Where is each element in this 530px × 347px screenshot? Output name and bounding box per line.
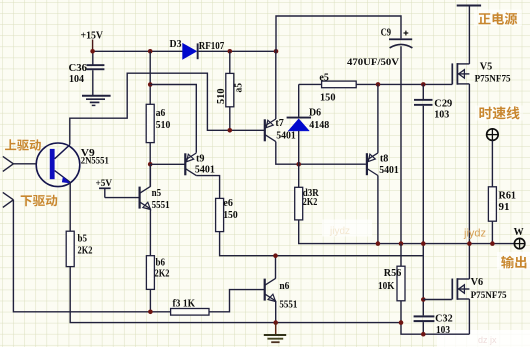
wire bottom rail xyxy=(70,267,401,323)
node junction at b6/f3 row xyxy=(148,310,153,315)
svg-text:V6: V6 xyxy=(471,277,484,288)
svg-text:5401: 5401 xyxy=(195,165,215,176)
svg-text:91: 91 xyxy=(499,202,510,213)
svg-text:2K2: 2K2 xyxy=(303,197,318,208)
node junction at V5/V6 output xyxy=(467,241,472,246)
svg-text:P75NF75: P75NF75 xyxy=(475,74,511,84)
wire V6 source to rail xyxy=(468,299,470,334)
svg-text:5401: 5401 xyxy=(276,131,296,142)
wire R56 top xyxy=(400,244,402,267)
capacitor C9 470UF/50V xyxy=(389,31,412,48)
node junction at n6 collector xyxy=(273,253,278,258)
svg-text:2K2: 2K2 xyxy=(155,268,170,279)
svg-text:103: 103 xyxy=(434,110,449,121)
svg-text:P75NF75: P75NF75 xyxy=(471,291,507,301)
wire +15V rail to D3 anode xyxy=(93,50,183,52)
transistor t9 (PNP 5401) xyxy=(185,153,196,176)
node junction at gate drive tap xyxy=(148,82,153,87)
wire f3 to n6 base xyxy=(209,290,265,312)
svg-text:C36: C36 xyxy=(69,63,88,74)
node junction at D6/d3R node xyxy=(296,162,301,167)
wire V5 drain to supply xyxy=(468,6,470,64)
svg-text:e5: e5 xyxy=(319,72,329,83)
wire terminal to R61 xyxy=(491,140,493,186)
wire t9 collector to e6 xyxy=(196,176,219,199)
svg-text:f3 1K: f3 1K xyxy=(173,298,196,309)
transistor V9 2N5551 xyxy=(36,143,80,187)
svg-text:e6: e6 xyxy=(223,198,233,209)
ground (C36) xyxy=(82,96,111,106)
wire e6 to mid rail xyxy=(220,232,424,256)
svg-text:2K2: 2K2 xyxy=(78,245,93,256)
wire C9 bottom to output node xyxy=(400,46,402,243)
label 输出 xyxy=(501,256,514,269)
node junction at +15V xyxy=(90,49,95,54)
transistor n5 (NPN 5551) xyxy=(140,186,151,209)
wire V9 emitter to b5 xyxy=(69,182,71,231)
wire R56 bottom xyxy=(401,301,469,334)
node W output terminal xyxy=(514,238,524,248)
node junction at R56 bottom rail xyxy=(399,320,404,325)
svg-text:W: W xyxy=(514,227,524,238)
svg-text:b6: b6 xyxy=(156,257,166,268)
node junction at R56 top xyxy=(399,241,404,246)
svg-text:dz jx: dz jx xyxy=(478,335,497,345)
power +5V xyxy=(96,179,113,198)
svg-text:t9: t9 xyxy=(196,153,205,164)
wire e5 to V5 gate xyxy=(356,83,452,85)
label 时速线 wash xyxy=(475,106,523,121)
node junction at t8 emitter node xyxy=(376,82,381,87)
svg-text:150: 150 xyxy=(223,210,238,221)
wire V9 collector to t7 base xyxy=(70,73,265,144)
resistor a5 510 xyxy=(226,73,234,106)
capacitor C29 103 xyxy=(414,99,433,106)
node junction at a6 tap xyxy=(148,49,153,54)
svg-text:C9: C9 xyxy=(381,27,392,38)
svg-text:2N5551: 2N5551 xyxy=(81,156,109,166)
svg-text:a6: a6 xyxy=(156,108,166,119)
node junction at a5 tap xyxy=(228,49,233,54)
label 上驱动 xyxy=(5,139,16,150)
svg-text:470UF/50V: 470UF/50V xyxy=(347,57,399,68)
svg-text:n6: n6 xyxy=(279,281,289,292)
node junction at a5/t7 base xyxy=(228,128,233,133)
svg-text:jiydz: jiydz xyxy=(329,226,350,237)
wire C29/C32 column xyxy=(422,106,424,316)
wire D3 cathode rail to node xyxy=(199,50,276,52)
svg-text:R56: R56 xyxy=(384,268,402,279)
svg-text:t8: t8 xyxy=(380,153,389,164)
wire a6 top xyxy=(149,51,151,104)
transistor t7 (PNP 5401) xyxy=(265,119,276,142)
resistor b6 2K2 xyxy=(146,256,154,290)
wire +15V tick xyxy=(92,40,94,52)
resistor a6 510 xyxy=(146,104,154,142)
diode D6 4148 xyxy=(287,117,311,131)
node junction at V6 gate node xyxy=(421,297,426,302)
svg-text:10K: 10K xyxy=(378,281,395,292)
wire C29 top xyxy=(422,84,424,99)
wire t9 collector stub xyxy=(195,175,197,177)
svg-text:t7: t7 xyxy=(275,118,284,129)
label 时速线 xyxy=(479,107,491,120)
node 下驱动 input arrow xyxy=(3,192,14,207)
wire output row xyxy=(299,220,515,244)
wire t8 emitter up xyxy=(377,84,379,152)
svg-text:C29: C29 xyxy=(434,99,452,110)
capacitor C32 103 xyxy=(414,315,435,334)
resistor b5 2K2 xyxy=(66,231,74,266)
svg-text:jiydz: jiydz xyxy=(463,228,486,240)
svg-text:104: 104 xyxy=(69,74,84,85)
diode D3 RF107 xyxy=(183,43,199,59)
wire t8 collector down xyxy=(377,176,379,244)
wire t7 emitter to rail xyxy=(275,51,277,119)
label 下驱动 xyxy=(21,195,32,206)
wire lower drive to f3 xyxy=(13,200,170,312)
svg-text:4148: 4148 xyxy=(309,120,329,131)
svg-text:D3: D3 xyxy=(170,39,182,50)
transistor n6 (NPN 5551) xyxy=(265,278,276,301)
svg-text:R61: R61 xyxy=(499,190,517,201)
wire n5 emitter to b6 xyxy=(149,209,151,256)
svg-text:n5: n5 xyxy=(152,188,162,199)
svg-text:5401: 5401 xyxy=(379,165,399,176)
node 时速线 terminal xyxy=(487,129,499,141)
svg-text:510: 510 xyxy=(216,89,227,105)
label 输出 wash xyxy=(497,252,530,270)
capacitor C36 xyxy=(87,51,105,95)
node junction at C32 bottom rail xyxy=(421,332,426,337)
node junction at output column node xyxy=(421,241,426,246)
wire b6 bottom xyxy=(149,289,151,311)
wire D6 cathode up xyxy=(298,84,300,116)
watermark bottom right xyxy=(437,330,530,347)
svg-text:V5: V5 xyxy=(480,61,493,72)
resistor f3 1K xyxy=(171,309,209,316)
wire top rail to C9 xyxy=(276,16,401,51)
node junction at t9 base node xyxy=(148,162,153,167)
wire V5 source to V6 drain xyxy=(468,84,470,279)
svg-text:510: 510 xyxy=(156,120,171,131)
svg-text:+5V: +5V xyxy=(96,179,113,189)
node junction at C29 node xyxy=(421,82,426,87)
node 上驱动 input arrow xyxy=(3,156,37,171)
svg-text:5551: 5551 xyxy=(279,299,297,310)
wire n5 base xyxy=(105,197,140,199)
svg-text:C32: C32 xyxy=(435,314,453,325)
svg-text:150: 150 xyxy=(320,92,336,103)
ground (n6 emitter) xyxy=(264,323,286,343)
wire a5 top xyxy=(229,51,231,73)
svg-text:RF107: RF107 xyxy=(199,41,225,52)
wire to t9 emitter xyxy=(150,85,196,153)
svg-text:D6: D6 xyxy=(309,108,321,119)
wire t7 collector to t8 base xyxy=(276,142,366,165)
label 正电源 xyxy=(478,13,490,24)
wire D6 top / e5 left xyxy=(299,83,322,85)
node junction at t7 emitter rail xyxy=(274,49,279,54)
node junction at n6 emitter rail xyxy=(273,320,278,325)
resistor R56 10K xyxy=(397,266,405,301)
resistor R61 91 xyxy=(488,187,496,221)
watermark patch xyxy=(322,220,372,237)
node junction at t8 collector/output xyxy=(376,241,381,246)
svg-text:b5: b5 xyxy=(78,233,88,244)
wire a6 to n5 collector xyxy=(149,143,151,187)
wire R61 bottom xyxy=(491,221,493,243)
transistor t8 (PNP 5401) xyxy=(367,153,378,176)
power 正电源 bar xyxy=(457,5,481,7)
resistor e5 150 xyxy=(322,81,357,88)
wire D6 anode to d3R xyxy=(298,131,300,187)
wire n6 collector xyxy=(275,256,277,279)
wire V6 gate xyxy=(423,299,452,301)
wire n6 emitter xyxy=(275,301,277,323)
svg-text:5551: 5551 xyxy=(152,200,170,211)
wire n5 collector xyxy=(149,164,151,186)
label 正电源 wash xyxy=(474,10,522,27)
node junction at R61/output xyxy=(490,241,495,246)
MOSFET V5 (P75NF75) xyxy=(452,63,469,85)
wire t9 base xyxy=(150,163,185,165)
resistor d3R 2K2 xyxy=(295,187,303,220)
svg-text:a5: a5 xyxy=(234,83,245,93)
MOSFET V6 (P75NF75) xyxy=(452,278,469,300)
wire a5 bottom xyxy=(229,107,231,131)
resistor e6 150 xyxy=(216,198,224,231)
